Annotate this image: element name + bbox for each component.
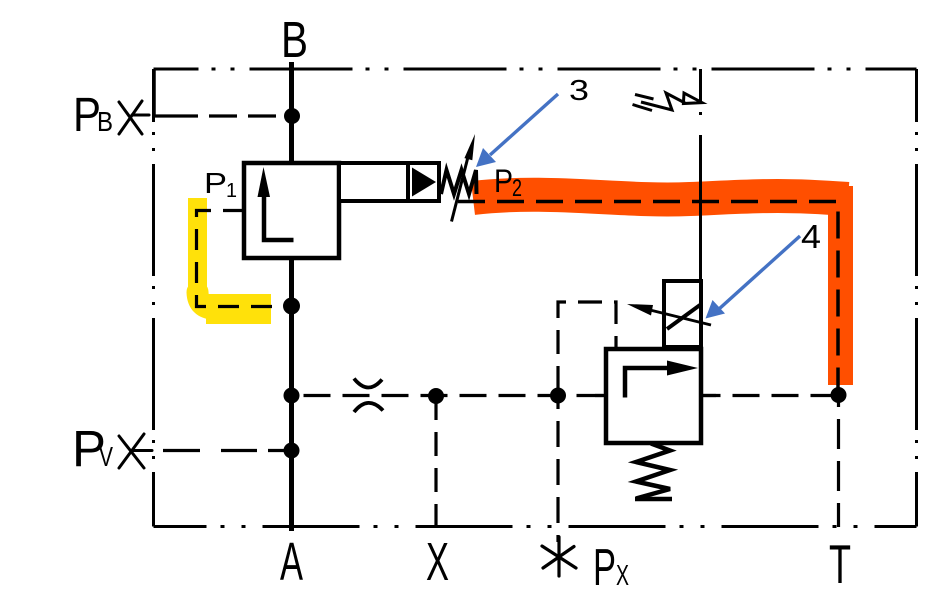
svg-text:B: B (97, 106, 113, 137)
manifold boundary left (152, 69, 155, 527)
yellow highlight on P1 pilot line (188, 198, 207, 296)
svg-text:X: X (616, 560, 629, 592)
svg-text:P: P (204, 168, 227, 200)
electrical actuation arrow (633, 93, 703, 111)
measuring point X (P_B) (119, 101, 149, 134)
manifold boundary right (915, 69, 918, 527)
callout arrow 3 (490, 94, 558, 155)
section chain line (699, 69, 702, 282)
measuring point X (P_V) (119, 434, 152, 468)
manifold boundary top (154, 68, 917, 71)
callout arrow 4 (719, 236, 800, 309)
svg-text:2: 2 (512, 175, 522, 202)
pilot relief valve 4 body (606, 349, 701, 443)
spring of valve 3 (441, 170, 477, 194)
valve 4 port stubs (595, 394, 606, 397)
pressure reducing valve body (244, 163, 339, 258)
port star Px (542, 537, 576, 576)
svg-text:B: B (281, 11, 308, 68)
svg-text:V: V (99, 441, 113, 472)
wire P_B connector (155, 69, 293, 116)
svg-text:4: 4 (801, 218, 821, 255)
wire P1 pilot dashed line (197, 211, 284, 307)
svg-text:A: A (280, 532, 303, 592)
relief valve flow arrow (625, 368, 668, 398)
valve 4 adjuster box (664, 281, 701, 347)
adjuster arrow (650, 310, 711, 325)
svg-text:X: X (426, 532, 449, 592)
node B (284, 108, 300, 124)
reducing valve flow arrow (264, 194, 294, 240)
node P1 junction (283, 298, 300, 315)
wire Px port line (556, 395, 559, 542)
adjustment arrow of valve 3 (452, 153, 470, 222)
node P_V (284, 443, 300, 459)
spring of valve 4 (636, 444, 670, 499)
orifice restriction (354, 379, 383, 413)
wire pilot loop to valve 4 (558, 302, 616, 390)
wire port B line (289, 62, 294, 165)
node Px (550, 388, 566, 404)
node X (428, 388, 444, 404)
svg-text:1: 1 (226, 180, 237, 202)
svg-text:P: P (593, 539, 616, 592)
node T (831, 387, 847, 403)
adjuster diagonal (667, 305, 700, 329)
wire control line (292, 394, 837, 397)
solenoid box divider (406, 163, 410, 201)
wire X port line (434, 396, 437, 531)
svg-text:P: P (494, 163, 513, 199)
wire P2 line (458, 202, 838, 389)
manifold boundary bottom (154, 525, 917, 528)
svg-text:T: T (829, 533, 851, 592)
wire T port line (837, 395, 840, 527)
orange highlight on P2 line to T (473, 195, 848, 200)
solenoid triangle (412, 168, 436, 197)
svg-text:3: 3 (569, 75, 589, 107)
wire port A line (289, 256, 294, 531)
solenoid tube (339, 163, 439, 201)
node control line on A (284, 388, 300, 404)
wire P_V connector (163, 449, 291, 452)
